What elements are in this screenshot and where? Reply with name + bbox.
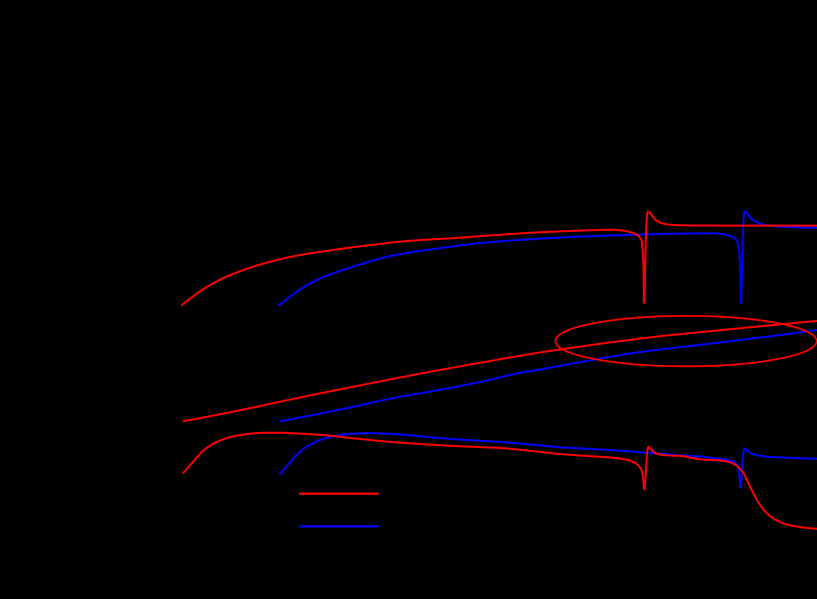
- bottom subplot red curve with notch and rolloff: [183, 433, 817, 529]
- middle subplot red diagonal curve: [183, 321, 817, 422]
- red ellipse annotation: [555, 316, 816, 366]
- middle subplot blue diagonal curve: [279, 330, 817, 421]
- top subplot red curve (filter 1 phase with notch): [181, 212, 817, 306]
- legend red line sample: [299, 493, 379, 495]
- bottom subplot blue curve with notch: [279, 433, 817, 487]
- top subplot blue curve (filter 2 phase with notch): [278, 211, 817, 305]
- legend blue line sample: [299, 525, 379, 527]
